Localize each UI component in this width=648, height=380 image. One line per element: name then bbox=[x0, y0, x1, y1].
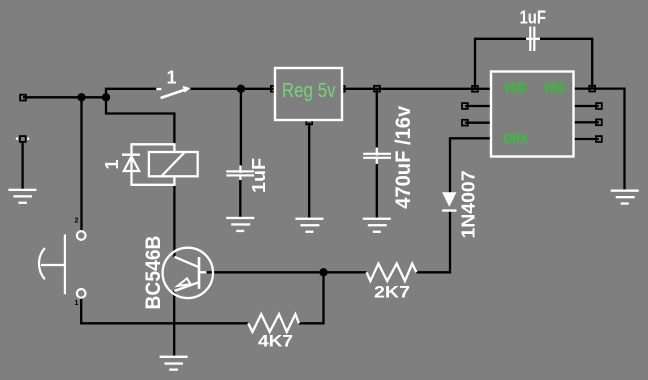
switch S1 lever arrowhead bbox=[183, 86, 191, 93]
wire: VSS pin square right and down to ground symbol bbox=[592, 89, 624, 191]
pin square: Reg 5v input bbox=[271, 86, 277, 92]
wire: relay coil bottom down to transistor collector bbox=[173, 185, 175, 257]
transistor Q1 base bar bbox=[198, 257, 201, 289]
speck right of pin square 2 bbox=[27, 138, 29, 140]
wire: switch right side to junction C bbox=[191, 88, 241, 90]
ground G4 (Reg 5v) bbox=[295, 218, 323, 233]
flyback diode D1 triangle bbox=[124, 157, 139, 172]
pin square: Reg 5v ground bbox=[306, 119, 312, 125]
capacitor C1 top stub bbox=[239, 165, 241, 173]
svg-text:2K7: 2K7 bbox=[374, 282, 410, 301]
flyback diode D1 through line bbox=[130, 143, 132, 186]
wire: PIC unconnected right pin 4 bbox=[574, 138, 599, 140]
switch S1 fixed contact tick bbox=[157, 88, 162, 90]
junction dot B bbox=[102, 93, 110, 101]
junction dot C bbox=[237, 85, 245, 93]
relay RL1 coil diagonal bbox=[162, 152, 185, 176]
capacitor C4 left stub bbox=[526, 38, 533, 40]
wire: PIC right edge to VSS pin square bbox=[574, 87, 593, 89]
capacitor C4 right stub bbox=[535, 38, 541, 40]
wire: VDD pin square to PIC left edge bbox=[475, 88, 491, 90]
svg-text:470uF /16v: 470uF /16v bbox=[392, 105, 415, 208]
wire: left pin1 to junction A bbox=[23, 96, 106, 98]
pushbutton SW2 top contact bbox=[77, 231, 86, 240]
svg-text:BC546B: BC546B bbox=[142, 236, 165, 310]
ground G2 (emitter) bbox=[160, 356, 188, 371]
wire: 470uF cap top stub from rail bbox=[376, 90, 378, 147]
svg-text:4K7: 4K7 bbox=[258, 331, 293, 350]
wire: Reg 5v ground pin down to ground symbol bbox=[308, 123, 310, 218]
pin square: PIC left pin 3 bbox=[462, 120, 468, 126]
PIC U1 box bbox=[491, 72, 574, 157]
capacitor C1 bottom stub bbox=[239, 175, 241, 181]
wire: Reg 5v output pin right to PIC VDD pin square bbox=[343, 88, 475, 90]
pin square: PIC right pin 3 bbox=[596, 119, 602, 125]
capacitor C2 bottom plate bbox=[363, 157, 391, 159]
pin square: left pin 1 bbox=[20, 95, 26, 101]
diode D2 1N4007 triangle bbox=[442, 192, 456, 207]
wire: PIC unconnected left pin 3 bbox=[465, 122, 491, 124]
wire: 1N4007 anode up, right to PIC GPX pin bbox=[450, 138, 491, 192]
wire: 2K7 right, up to 1N4007 cathode bbox=[416, 212, 450, 273]
svg-text:GPX: GPX bbox=[504, 130, 528, 147]
capacitor C4 left plate bbox=[529, 27, 531, 52]
capacitor C2 top plate bbox=[363, 153, 391, 155]
wire: junction B up and right to switch left contact bbox=[106, 89, 156, 98]
relay RL1 coil top stub bbox=[173, 143, 175, 153]
resistor R2 2K7 zigzag bbox=[367, 264, 417, 281]
wire: VDD pin square up and right along top rail to 1uF C4 bbox=[475, 39, 527, 89]
capacitor C1 top plate bbox=[226, 170, 254, 172]
wire: junction C down to 1uF cap C1 top bbox=[240, 89, 242, 166]
pushbutton SW2 plunger bbox=[41, 264, 65, 266]
speck left of pin square 2 bbox=[16, 138, 18, 140]
transistor Q1 emitter arrowhead bbox=[178, 278, 191, 286]
relay RL1 flyback loop bottom bbox=[132, 184, 175, 186]
pushbutton SW2 bottom contact bbox=[77, 289, 86, 298]
wire: left pin2 down to ground symbol bbox=[21, 141, 23, 190]
svg-text:1: 1 bbox=[102, 159, 122, 169]
ground G6 (VSS) bbox=[611, 190, 639, 205]
pin square: PIC right pin 2 bbox=[596, 103, 602, 109]
wire: 470uF cap bottom to ground bbox=[376, 164, 378, 218]
wire: 1uF C4 right side of top rail, down to VSS pin square bbox=[540, 39, 593, 89]
pin square: left pin 2 bbox=[20, 136, 26, 142]
svg-text:2: 2 bbox=[75, 218, 79, 225]
relay RL1 coil body bbox=[149, 152, 198, 176]
ground G1 (left pin 2) bbox=[8, 189, 36, 204]
regulator U2 box bbox=[275, 68, 342, 120]
diode D2 cathode bar bbox=[442, 209, 456, 211]
switch S1 lever bbox=[161, 90, 186, 99]
pin square: Reg 5v output bbox=[339, 86, 345, 92]
svg-text:1uF: 1uF bbox=[520, 8, 547, 28]
svg-text:Reg 5v: Reg 5v bbox=[282, 80, 336, 102]
svg-text:1: 1 bbox=[167, 68, 177, 88]
resistor R1 4K7 zigzag bbox=[248, 314, 299, 332]
capacitor C1 bottom plate bbox=[226, 174, 254, 176]
svg-text:VDD: VDD bbox=[504, 80, 527, 97]
relay RL1 coil bottom stub bbox=[173, 176, 175, 186]
relay RL1 flyback loop top bbox=[132, 143, 175, 145]
svg-text:1N4007: 1N4007 bbox=[459, 171, 479, 239]
pin square: 470uF top bbox=[374, 86, 380, 92]
pushbutton SW2 bar bbox=[64, 235, 66, 295]
capacitor C2 bottom stub bbox=[376, 157, 378, 164]
capacitor C2 top stub bbox=[376, 148, 378, 156]
wire: transistor base right to 2K7, through junction D bbox=[206, 271, 367, 273]
wire: 4K7 right end up to base rail junction bbox=[299, 272, 324, 323]
ground G3 (1uF C1) bbox=[226, 217, 254, 232]
transistor Q1 collector diagonal bbox=[174, 257, 198, 267]
wire: pushbutton bottom contact down and right along bottom rail to 4K7 bbox=[81, 298, 248, 324]
pin square: PIC VSS bbox=[589, 86, 595, 92]
pushbutton SW2 actuator arc bbox=[39, 248, 45, 279]
transistor Q1 emitter diagonal bbox=[174, 282, 199, 291]
wire: junction C right to Reg 5v input pin bbox=[241, 88, 274, 90]
pin square: PIC VDD bbox=[472, 86, 478, 92]
wire: PIC unconnected right pin 2 bbox=[574, 105, 599, 107]
ground G5 (470uF) bbox=[363, 218, 391, 233]
capacitor C4 right plate bbox=[533, 27, 535, 52]
wire: junction A down to pushbutton top contact bbox=[80, 97, 82, 230]
junction dot A bbox=[77, 93, 85, 101]
wire: PIC unconnected left pin 2 bbox=[465, 105, 491, 107]
svg-text:1: 1 bbox=[75, 300, 79, 307]
wire: transistor emitter down through bottom rail to ground bbox=[173, 291, 175, 356]
transistor Q1 base lead bbox=[199, 271, 207, 273]
pin square: PIC left pin 2 bbox=[462, 103, 468, 109]
svg-text:1uF: 1uF bbox=[249, 158, 269, 193]
transistor Q1 circle bbox=[163, 248, 213, 298]
junction dot D bbox=[319, 268, 327, 276]
pin square: PIC right pin 4 bbox=[596, 136, 602, 142]
svg-text:VSS: VSS bbox=[543, 80, 565, 97]
wire: PIC unconnected right pin 3 bbox=[574, 121, 599, 123]
wire: junction B down, right, down to relay coil top bbox=[106, 97, 174, 145]
flyback diode D1 cathode bar bbox=[122, 154, 140, 156]
wire: 1uF cap C1 bottom to ground bbox=[239, 180, 241, 217]
